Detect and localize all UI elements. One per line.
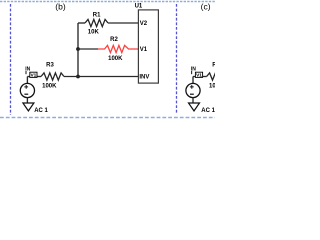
ground AC 1 (c) — [189, 103, 200, 111]
op-amp block U1 — [138, 10, 158, 83]
svg-text:100K: 100K — [108, 56, 123, 62]
resistor R3 — [41, 73, 64, 80]
svg-text:V1: V1 — [30, 73, 36, 79]
svg-text:10K: 10K — [88, 30, 100, 36]
svg-text:U1: U1 — [135, 3, 143, 9]
node: junction bus/R3-INV — [76, 75, 80, 79]
svg-text:V1: V1 — [196, 73, 202, 79]
bottom cut line — [0, 117, 215, 119]
svg-text:100K: 100K — [42, 84, 57, 90]
middle cut line — [176, 4, 178, 113]
net label IN anchor tick (c) — [191, 71, 193, 74]
svg-text:(b): (b) — [55, 2, 66, 12]
svg-text:AC 1: AC 1 — [201, 108, 215, 114]
svg-text:100K: 100K — [209, 84, 215, 90]
svg-text:(c): (c) — [201, 2, 211, 12]
wire: V1 source to R3 — [27, 76, 41, 78]
wire: source to ground (c) — [192, 98, 194, 103]
wire: R1 left lead — [78, 22, 85, 24]
wire: source V1 up to node (c) — [192, 77, 194, 84]
AC source V1 circle (c) — [186, 83, 200, 97]
minus sign (c) — [190, 93, 194, 95]
svg-text:INV: INV — [139, 75, 149, 81]
resistor R2 (red) — [98, 45, 139, 52]
wire: R1 to U1 V2 — [108, 22, 139, 24]
svg-text:R3: R3 — [46, 63, 54, 69]
wire: R3 to U1 INV — [64, 76, 139, 78]
ground AC 1 — [23, 103, 34, 111]
wire: bus to R2 — [78, 48, 98, 50]
wire: source to R3 (c) — [193, 76, 207, 78]
minus sign — [24, 93, 28, 95]
plus sign — [24, 85, 28, 89]
AC source V1 circle — [20, 83, 34, 97]
svg-text:V1: V1 — [140, 47, 148, 53]
svg-text:V2: V2 — [140, 21, 148, 27]
net label IN anchor tick — [25, 71, 27, 74]
svg-text:R3: R3 — [212, 63, 215, 69]
svg-text:R2: R2 — [110, 37, 118, 43]
resistor R1 — [85, 19, 108, 26]
wire: source to ground — [26, 98, 28, 103]
source name box V1 (c) — [195, 72, 202, 77]
wire: source V1 up to node — [26, 77, 28, 84]
left cut line — [10, 4, 12, 115]
resistor R3 (c, clipped) — [207, 73, 219, 80]
top cut line — [0, 1, 215, 3]
plus sign (c) — [190, 85, 194, 89]
wire: left vertical bus — [77, 23, 79, 77]
node: junction bus/R2 — [76, 47, 80, 51]
svg-text:R1: R1 — [93, 12, 101, 18]
source name box V1 — [30, 72, 37, 77]
svg-text:AC 1: AC 1 — [34, 108, 48, 114]
